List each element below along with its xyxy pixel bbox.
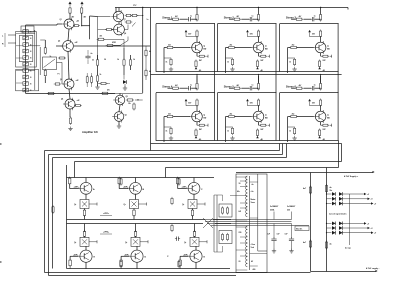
svg-text:+43R+: +43R+ xyxy=(74,186,79,189)
svg-text:1uF: 1uF xyxy=(267,234,270,236)
svg-text:Q5: Q5 xyxy=(126,96,128,98)
svg-text:+VR1+: +VR1+ xyxy=(103,213,110,215)
svg-text:+43R+: +43R+ xyxy=(73,253,78,256)
svg-text:+43R+: +43R+ xyxy=(124,253,129,256)
svg-text:Qr: Qr xyxy=(184,242,186,244)
svg-text:+VR2+: +VR2+ xyxy=(103,232,110,234)
svg-text:+40: +40 xyxy=(76,20,79,23)
svg-text:22: 22 xyxy=(137,100,139,102)
svg-text:10k: 10k xyxy=(128,103,131,105)
svg-text:230: 230 xyxy=(287,210,290,212)
svg-text:1u: 1u xyxy=(190,15,192,17)
svg-text:+3u: +3u xyxy=(251,191,254,193)
svg-text:P1: P1 xyxy=(58,74,60,76)
svg-text:4u: 4u xyxy=(330,186,332,189)
svg-text:Qr: Qr xyxy=(182,204,184,206)
svg-text:1u: 1u xyxy=(314,84,316,86)
svg-text:230A: 230A xyxy=(270,209,275,212)
svg-text:1k: 1k xyxy=(117,59,119,61)
svg-text:Q2: Q2 xyxy=(58,41,60,43)
svg-text:1u: 1u xyxy=(190,84,192,86)
svg-text:1uF: 1uF xyxy=(277,234,280,236)
svg-text:4u: 4u xyxy=(252,183,254,186)
svg-text:1u: 1u xyxy=(314,15,316,17)
svg-text:Qr: Qr xyxy=(74,204,76,206)
svg-text:40+: 40+ xyxy=(237,190,240,193)
svg-text:1uF: 1uF xyxy=(285,234,288,236)
svg-text:2k2: 2k2 xyxy=(292,113,295,115)
svg-text:20: 20 xyxy=(239,261,241,263)
svg-text:2k: 2k xyxy=(92,60,94,62)
svg-text:1k: 1k xyxy=(227,131,229,133)
svg-text:Tmb: Tmb xyxy=(251,247,255,249)
svg-text:30: 30 xyxy=(239,183,241,185)
svg-text:+Tma: +Tma xyxy=(251,244,256,246)
svg-text:1k: 1k xyxy=(50,56,52,58)
svg-text:+43R+: +43R+ xyxy=(182,186,187,189)
svg-text:1k: 1k xyxy=(289,62,291,64)
svg-text:4u7: 4u7 xyxy=(303,187,306,190)
svg-text:1k: 1k xyxy=(166,62,168,64)
svg-text:+43R+: +43R+ xyxy=(123,186,128,189)
svg-text:2k2: 2k2 xyxy=(168,113,171,115)
svg-text:4.7kV supply -: 4.7kV supply - xyxy=(366,267,380,270)
svg-text:1k: 1k xyxy=(133,59,135,61)
svg-text:1n: 1n xyxy=(147,19,149,21)
svg-text:Qr: Qr xyxy=(124,204,126,206)
svg-text:36: 36 xyxy=(104,59,106,61)
svg-text:Mains: Mains xyxy=(251,199,256,201)
svg-text:low volt signal diodes: low volt signal diodes xyxy=(329,213,347,216)
svg-text:2k2: 2k2 xyxy=(292,44,295,46)
svg-text:1u: 1u xyxy=(252,84,254,86)
svg-text:230: 230 xyxy=(239,232,242,234)
svg-text:Trans: Trans xyxy=(251,202,256,204)
svg-text:1u: 1u xyxy=(252,15,254,17)
svg-text:Qr: Qr xyxy=(125,242,127,244)
svg-text:1k: 1k xyxy=(100,74,102,76)
svg-text:4u7: 4u7 xyxy=(303,241,306,244)
svg-text:Q7: Q7 xyxy=(124,19,126,21)
svg-text:1k: 1k xyxy=(289,131,291,133)
svg-text:4x mps: 4x mps xyxy=(345,247,351,250)
svg-text:+43R+: +43R+ xyxy=(183,253,188,256)
svg-text:Q1: Q1 xyxy=(60,19,62,21)
svg-text:Q8: Q8 xyxy=(124,33,126,35)
svg-text:400: 400 xyxy=(253,268,256,271)
svg-text:2x1N4007: 2x1N4007 xyxy=(270,205,278,208)
svg-text:4k: 4k xyxy=(149,50,151,53)
svg-text:2x1N4007: 2x1N4007 xyxy=(287,205,295,208)
svg-text:LW: LW xyxy=(239,211,242,213)
svg-text:50v: 50v xyxy=(330,190,333,192)
svg-text:4k: 4k xyxy=(149,70,151,73)
svg-text:4u: 4u xyxy=(330,243,332,246)
svg-text:2k2: 2k2 xyxy=(230,113,233,115)
svg-text:Q3: Q3 xyxy=(60,79,62,81)
svg-text:Q6: Q6 xyxy=(125,115,127,117)
svg-text:Amplifier 1/8: Amplifier 1/8 xyxy=(82,130,98,134)
svg-text:Qr: Qr xyxy=(74,242,76,244)
svg-text:1k: 1k xyxy=(166,131,168,133)
svg-text:4.7kV Supply +: 4.7kV Supply + xyxy=(344,175,359,178)
svg-text:2k2: 2k2 xyxy=(168,44,171,46)
svg-text:2k2: 2k2 xyxy=(230,44,233,46)
svg-text:1k: 1k xyxy=(227,62,229,64)
